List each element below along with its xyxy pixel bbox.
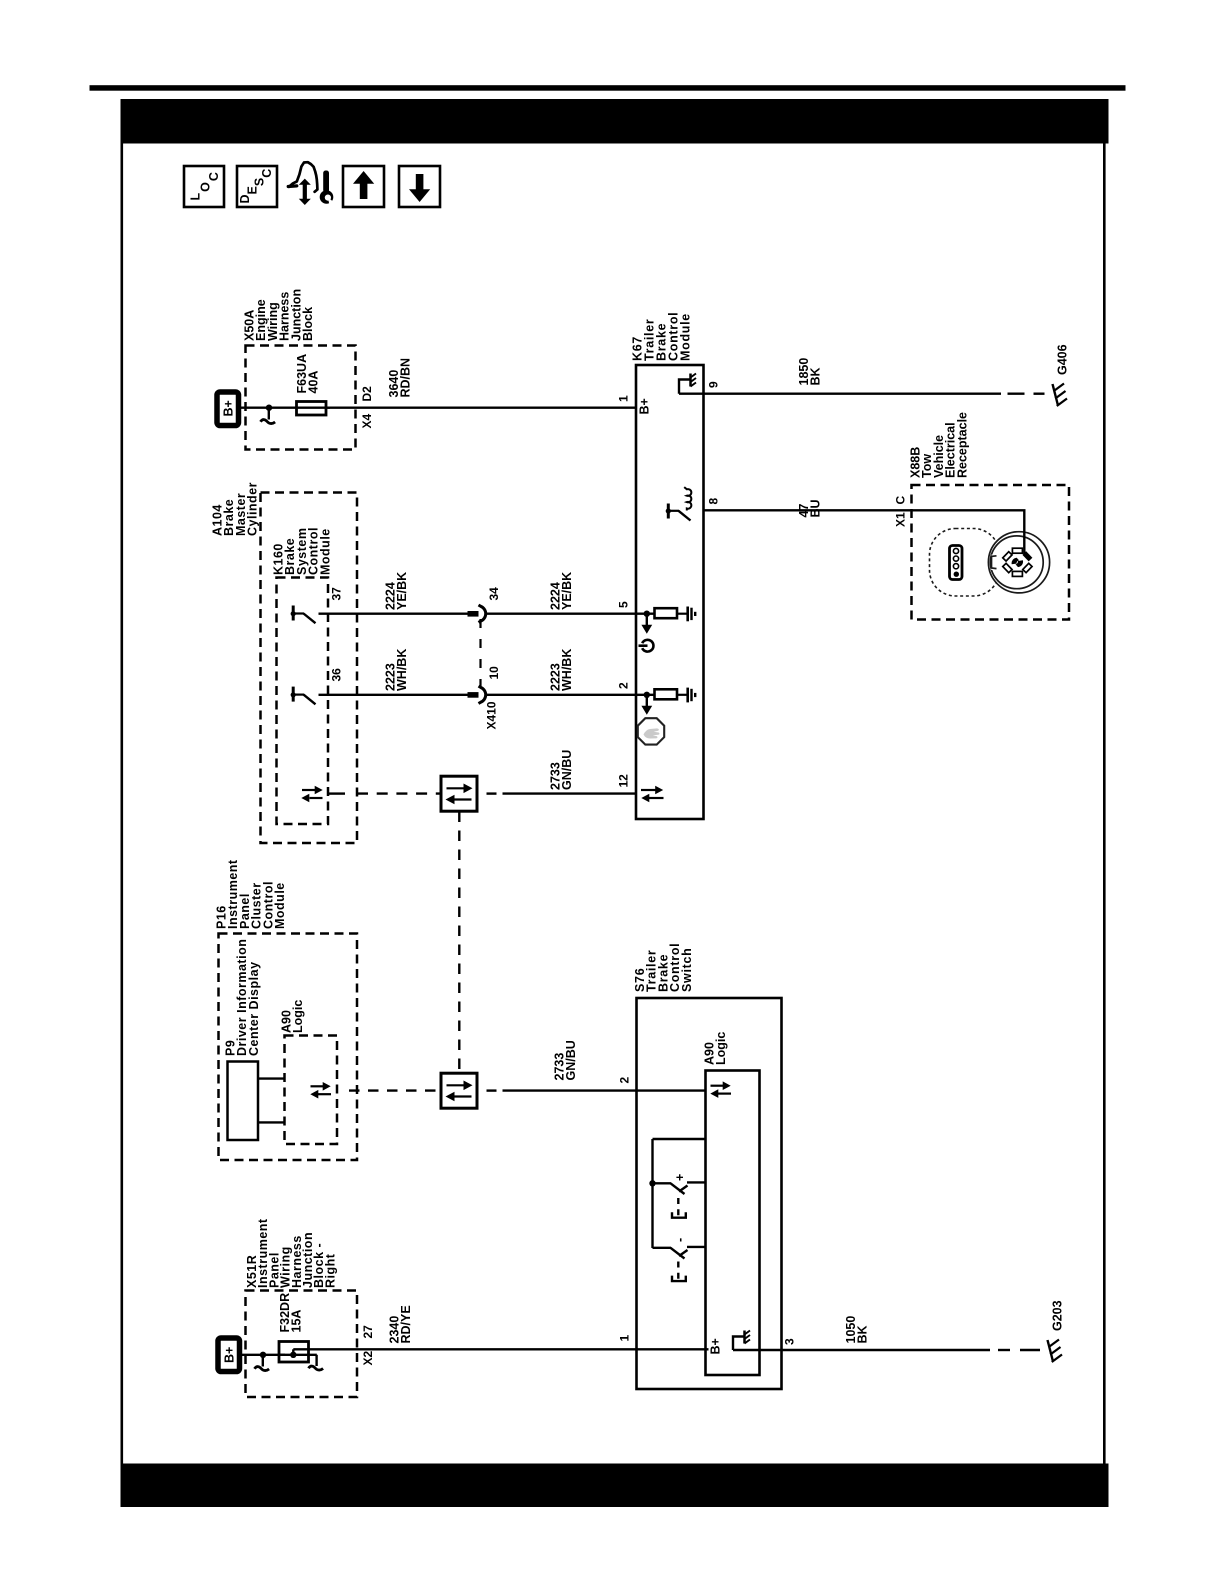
svg-text:WH/BK: WH/BK — [560, 649, 574, 691]
svg-text:+: + — [673, 1174, 687, 1181]
svg-text:Block: Block — [301, 307, 315, 341]
internal ground symbol at K67 pin 9 — [679, 374, 696, 394]
svg-text:34: 34 — [487, 587, 501, 601]
pull-up resistor with ground at K67 pin 5 — [636, 607, 695, 622]
svg-text:Module: Module — [273, 882, 287, 929]
wire 2733 GN/BU from junction to K67 pin 12 — [487, 750, 637, 794]
svg-text:27: 27 — [361, 1325, 375, 1339]
connector X88B Tow Vehicle Electrical Receptacle (dashed) — [909, 412, 1070, 620]
junction block X51R Instrument Panel Wiring Harness Junction Block - Right (dashed) — [245, 1218, 357, 1397]
svg-text:X1: X1 — [894, 512, 908, 527]
pin 1 of K67 (B+) — [617, 395, 652, 415]
wire 47 BU from pin 8 to X88B — [704, 499, 1026, 555]
svg-text:BK: BK — [856, 1325, 870, 1343]
svg-text:YE/BK: YE/BK — [395, 572, 409, 610]
svg-text:YE/BK: YE/BK — [560, 572, 574, 610]
output arrow and run/crank power symbol at pin 5 — [639, 614, 654, 652]
ground G203 — [1048, 1300, 1065, 1362]
switch common feed rail inside S76 — [649, 1139, 705, 1248]
svg-text:Logic: Logic — [714, 1032, 728, 1065]
icon LOC button — [184, 166, 224, 207]
wire 2224 YE/BK from connector to K67 pin 5 — [487, 572, 636, 614]
fuse F32DR 15A with internal tap — [278, 1293, 323, 1370]
icon DESC button — [237, 166, 277, 207]
svg-text:X2: X2 — [361, 1350, 375, 1365]
svg-text:2: 2 — [618, 1077, 632, 1084]
svg-text:Switch: Switch — [680, 948, 694, 992]
connector X1 pin C labels — [894, 496, 908, 528]
serial data symbol at K67 pin 12 — [641, 786, 664, 803]
svg-text:8: 8 — [707, 498, 721, 505]
svg-text:3: 3 — [783, 1338, 797, 1345]
svg-text:10: 10 — [487, 666, 501, 680]
wire from B+ (bottom) into fuse F32DR — [240, 1354, 285, 1356]
svg-text:GN/BU: GN/BU — [560, 750, 574, 790]
receptacle housing (dotted outline) — [930, 529, 1000, 597]
power symbol B+ (battery positive feed, bottom) — [218, 1338, 240, 1372]
svg-text:X410: X410 — [485, 701, 499, 729]
wire 2340 RD/YE from fuse to S76 pin 1 — [293, 1305, 636, 1349]
svg-text:36: 36 — [330, 668, 344, 682]
svg-text:Receptacle: Receptacle — [955, 412, 969, 478]
module K67 Trailer Brake Control Module — [631, 312, 704, 819]
svg-text:RD/YE: RD/YE — [399, 1305, 413, 1343]
svg-text:BK: BK — [809, 367, 823, 385]
serial data symbol inside K160 — [301, 786, 345, 803]
serial data symbol inside A90 (S76) — [710, 1081, 731, 1098]
svg-text:G203: G203 — [1051, 1300, 1065, 1331]
svg-text:40A: 40A — [307, 371, 321, 394]
svg-text:B+: B+ — [223, 1347, 237, 1363]
serial data bus (dashed) from A90 to junction (lower) — [349, 1089, 440, 1091]
svg-text:9: 9 — [707, 381, 721, 388]
svg-text:C: C — [894, 496, 908, 505]
inductive driver symbol at K67 pin 8 — [666, 487, 692, 520]
svg-text:RD/BN: RD/BN — [399, 358, 413, 398]
serial data junction node (lower) — [441, 1073, 477, 1108]
icon vehicle-service with up/down arrow and wrench — [288, 162, 335, 207]
PAGE-FURNITURE — [90, 85, 1126, 91]
wire from fuse to K67 pin 1 — [326, 407, 636, 409]
junction block X50A Engine Wiring Harness Junction Block (dashed) — [243, 289, 356, 450]
wire 2223 WH/BK from connector to K67 pin 2 — [487, 649, 636, 695]
wire 2224 YE/BK from K160 pin 37 to in-line connector — [319, 572, 469, 614]
wire 1850 BK from pin 9 to G406 — [679, 358, 1045, 394]
wire B+ feed inside S76 to A90 logic — [637, 1348, 709, 1350]
svg-text:Module: Module — [679, 313, 693, 361]
splice junction with tap to other circuits (bottom B+) — [255, 1352, 270, 1371]
terminal symbol at K160 pin 37 — [291, 606, 316, 624]
switch S76 Trailer Brake Control Switch — [633, 943, 782, 1389]
wire 1050 BK from S76 pin 3 to G203 — [782, 1316, 1041, 1350]
svg-text:B+: B+ — [638, 398, 652, 414]
serial data bus (dashed) from K160 to junction — [357, 792, 440, 794]
svg-text:BU: BU — [809, 499, 823, 517]
connector X4 pin D2 labels — [360, 386, 374, 429]
wire from B+ to fuse F63UA — [241, 407, 330, 409]
module K160 Brake System Control Module (dashed) — [272, 527, 333, 824]
svg-text:Center Display: Center Display — [247, 961, 261, 1056]
7-way round connector in receptacle — [988, 531, 1049, 593]
component A104 Brake Master Cylinder (dashed) — [211, 482, 358, 843]
ground G406 — [1053, 344, 1070, 406]
svg-text:G406: G406 — [1056, 344, 1070, 375]
connector X410 dashed link and label — [481, 619, 499, 730]
wire 2223 WH/BK from K160 pin 36 to in-line connector — [319, 649, 469, 695]
in-line connector X410 pin 34 (male/female) — [468, 587, 502, 623]
power symbol B+ (battery positive feed, top) — [217, 392, 239, 426]
svg-text:D2: D2 — [360, 386, 374, 402]
svg-text:Logic: Logic — [291, 1000, 305, 1033]
serial data bus vertical link between junction nodes (dashed) — [458, 812, 460, 1072]
mechanical link (dashed) with detent bracket (lower) — [672, 1262, 686, 1282]
svg-text:WH/BK: WH/BK — [395, 649, 409, 691]
wire 2733 GN/BU from junction to S76 pin 2 — [487, 1040, 707, 1090]
svg-text:B+: B+ — [222, 400, 236, 416]
svg-text:1: 1 — [617, 395, 631, 402]
splice junction with tap to other circuits (top B+) — [261, 405, 276, 424]
icon down-arrow button — [399, 166, 440, 207]
logic block A90 inside P16 (dashed) — [280, 1000, 338, 1144]
fuse F63UA 40A — [295, 354, 326, 415]
connector X2 pin 27 labels — [361, 1325, 375, 1366]
svg-text:2: 2 — [617, 682, 631, 689]
serial data junction node (upper) — [441, 776, 477, 811]
display P9 Driver Information Center Display — [224, 939, 285, 1140]
svg-text:Cylinder: Cylinder — [246, 482, 260, 536]
module P16 Instrument Panel Cluster Control Module (dashed) — [215, 859, 358, 1160]
svg-text:1: 1 — [618, 1335, 632, 1342]
pull-up resistor with ground at K67 pin 2 — [636, 688, 695, 703]
svg-text:-: - — [673, 1238, 687, 1242]
in-line connector X410 pin 10 (male/female) — [468, 666, 502, 704]
logic block A90 inside S76 — [703, 1032, 760, 1375]
svg-text:Right: Right — [323, 1253, 337, 1288]
switch contact + (gain up) — [653, 1174, 706, 1194]
svg-text:X4: X4 — [360, 413, 374, 428]
svg-text:B+: B+ — [709, 1338, 723, 1354]
4-pin flat connector in receptacle — [950, 546, 963, 580]
wire ground out of A90 to S76 pin 3 — [733, 1349, 782, 1351]
svg-text:5: 5 — [617, 601, 631, 608]
wire label 3640 RD/BN — [387, 358, 413, 398]
serial data symbol inside A90 (P16) — [310, 1082, 331, 1099]
svg-text:12: 12 — [617, 774, 631, 788]
mechanical link (dashed) with detent bracket (upper) — [672, 1198, 686, 1218]
B+ label and internal ground inside A90 (S76) — [709, 1331, 751, 1355]
svg-text:GN/BU: GN/BU — [564, 1040, 578, 1080]
svg-text:15A: 15A — [290, 1310, 304, 1333]
output arrow and manual-apply (hand) symbol at pin 2 — [638, 695, 664, 745]
terminal symbol at K160 pin 36 — [291, 687, 316, 705]
icon up-arrow button — [343, 166, 384, 207]
switch contact - (gain down) — [653, 1238, 706, 1259]
svg-text:37: 37 — [330, 587, 344, 601]
svg-text:Module: Module — [318, 528, 332, 575]
